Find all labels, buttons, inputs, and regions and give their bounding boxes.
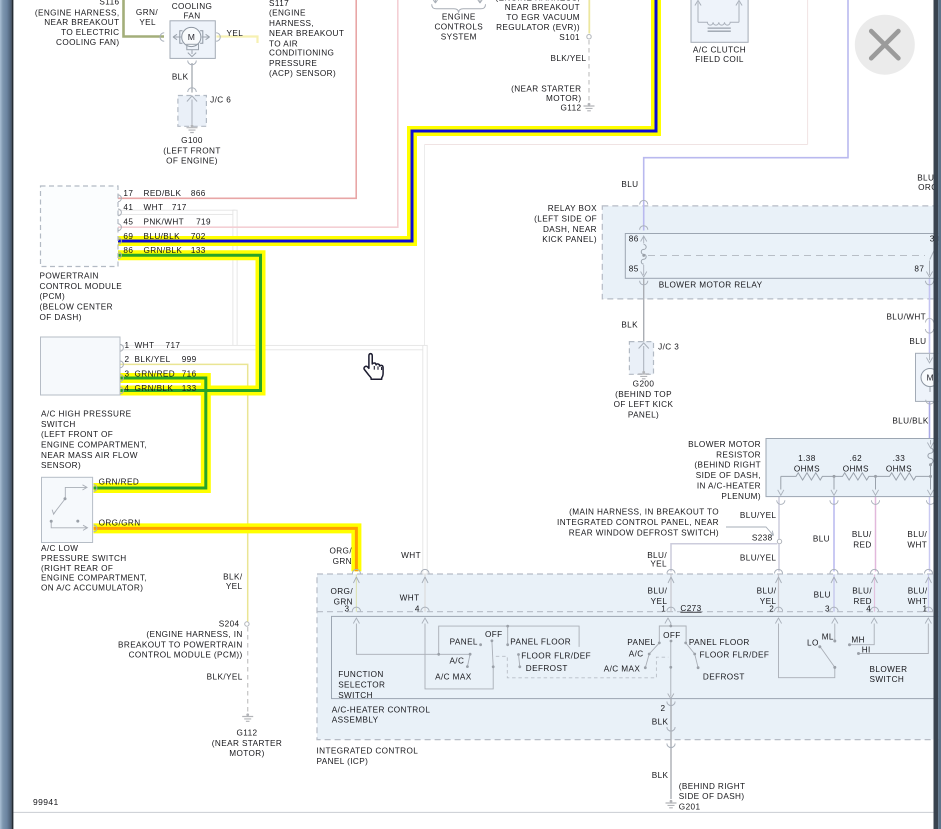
- svg-text:BLU: BLU: [621, 180, 638, 189]
- relay pin labels: [629, 234, 940, 273]
- wire RED/BLK 866 from PCM pin 17: [118, 0, 356, 198]
- relay pin 85 arrow: [641, 265, 647, 277]
- svg-text:KICK PANEL): KICK PANEL): [542, 235, 597, 244]
- svg-text:S238: S238: [752, 534, 773, 543]
- svg-text:(RIGHT REAR OF: (RIGHT REAR OF: [41, 564, 113, 573]
- label BLOWER MOTOR RELAY: [659, 280, 763, 289]
- svg-text:TO AIR: TO AIR: [269, 39, 298, 48]
- svg-text:ORG/GRN: ORG/GRN: [99, 519, 141, 528]
- svg-text:A/C-HEATER CONTROL: A/C-HEATER CONTROL: [332, 705, 431, 714]
- svg-text:MH: MH: [851, 635, 865, 644]
- svg-text:ASSEMBLY: ASSEMBLY: [332, 716, 379, 725]
- svg-text:2: 2: [769, 604, 774, 613]
- svg-text:BLK/YEL: BLK/YEL: [207, 673, 243, 682]
- svg-text:87: 87: [914, 265, 924, 274]
- svg-text:G112: G112: [236, 729, 257, 738]
- label BLK/YEL (S204): [207, 673, 243, 682]
- svg-text:BLU: BLU: [814, 590, 831, 599]
- wire BLU/BLK 702 PCM pin 69 to top (highlighted): [118, 0, 656, 241]
- ICP BLK pin 2 exit bumps: [667, 702, 675, 748]
- svg-text:COOLING: COOLING: [172, 2, 213, 11]
- wire BLU/YEL resistor to splice S238: [778, 497, 780, 540]
- page number 99941: [33, 797, 59, 807]
- svg-text:716: 716: [182, 370, 197, 379]
- wire BLK/YEL 999 from pressure switch pin 2 to S204: [120, 364, 248, 621]
- label A/C CLUTCH FIELD COIL: [693, 45, 746, 64]
- svg-text:86: 86: [629, 235, 639, 244]
- ICP boundary crossing bumps: [352, 569, 932, 573]
- wire BLK relay pin 85 to J/C 3: [643, 278, 645, 342]
- svg-text:BLU/BLK: BLU/BLK: [144, 232, 181, 241]
- cooling fan box: [170, 21, 215, 59]
- svg-text:BLOWER MOTOR RELAY: BLOWER MOTOR RELAY: [659, 280, 763, 289]
- svg-text:BLU/: BLU/: [908, 587, 928, 596]
- label BLU: [621, 180, 638, 189]
- svg-text:45: 45: [123, 218, 133, 227]
- wire WHT 717 row to ICP: [120, 345, 425, 349]
- svg-text:BLU/YEL: BLU/YEL: [740, 511, 777, 520]
- svg-text:OFF: OFF: [485, 630, 503, 639]
- svg-text:2: 2: [125, 355, 130, 364]
- svg-text:BLOWER: BLOWER: [870, 665, 908, 674]
- svg-text:S117: S117: [269, 0, 289, 8]
- svg-text:GRN/BLK: GRN/BLK: [135, 384, 174, 393]
- svg-text:A/C HIGH PRESSURE: A/C HIGH PRESSURE: [41, 410, 132, 419]
- blower switch labels: [807, 632, 907, 684]
- svg-text:ORG/: ORG/: [329, 547, 352, 556]
- svg-text:(ACP) SENSOR): (ACP) SENSOR): [269, 69, 336, 78]
- svg-text:ON A/C ACCUMULATOR): ON A/C ACCUMULATOR): [41, 583, 143, 592]
- svg-text:SWITCH: SWITCH: [41, 420, 76, 429]
- label BLU/ORG (clipped at right): [917, 174, 938, 193]
- wire BLU/YEL S238 branch to ICP pin 1: [671, 544, 777, 572]
- svg-text:DEFROST: DEFROST: [703, 672, 745, 681]
- deck 1 contact dots: [437, 625, 521, 669]
- svg-text:4: 4: [125, 384, 130, 393]
- ground G112 near starter motor (top): [584, 103, 595, 111]
- svg-text:BLU/: BLU/: [757, 587, 777, 596]
- wire ORG/GRN low pressure switch to ICP (highlighted): [94, 528, 357, 571]
- relay pin 30 contact: [930, 234, 939, 260]
- svg-text:BLU: BLU: [909, 337, 926, 346]
- label G201: [679, 782, 746, 811]
- svg-text:PANEL): PANEL): [628, 410, 659, 419]
- svg-text:(LEFT FRONT OF: (LEFT FRONT OF: [41, 430, 113, 439]
- svg-text:BREAKOUT TO POWERTRAIN: BREAKOUT TO POWERTRAIN: [118, 640, 243, 649]
- svg-text:S204: S204: [219, 620, 240, 629]
- svg-text:999: 999: [182, 355, 197, 364]
- svg-text:J/C 3: J/C 3: [658, 342, 679, 351]
- label ENGINE CONTROLS SYSTEM: [434, 13, 483, 42]
- svg-text:.33: .33: [893, 454, 906, 463]
- svg-text:YEL: YEL: [650, 560, 667, 569]
- svg-text:A/C: A/C: [449, 656, 464, 665]
- wire BLK cooling fan to J/C 6: [191, 63, 193, 93]
- svg-text:ML: ML: [822, 632, 834, 641]
- svg-text:69: 69: [123, 232, 133, 241]
- blower motor relay inner box: [625, 234, 941, 279]
- wire BLU inside ICP: [831, 575, 837, 612]
- svg-text:YEL: YEL: [226, 582, 243, 591]
- svg-text:WHT: WHT: [401, 551, 421, 560]
- high pressure switch pin row labels: [125, 341, 197, 393]
- svg-text:FLOOR FLR/DEF: FLOOR FLR/DEF: [521, 652, 591, 661]
- svg-text:PNK/WHT: PNK/WHT: [144, 218, 185, 227]
- svg-text:133: 133: [191, 246, 206, 255]
- svg-text:DEFROST: DEFROST: [526, 664, 568, 673]
- label FUNCTION SELECTOR SWITCH: [338, 670, 385, 700]
- ICP integrated control panel outer dashed box: [317, 574, 941, 740]
- blower switch contact dots: [818, 640, 860, 669]
- svg-text:1: 1: [661, 604, 666, 613]
- svg-text:GRN/RED: GRN/RED: [135, 370, 176, 379]
- svg-text:(BEHIND TOP: (BEHIND TOP: [615, 390, 672, 399]
- svg-text:SWITCH: SWITCH: [338, 691, 373, 700]
- label BLK (relay): [621, 321, 638, 330]
- svg-text:A/C LOW: A/C LOW: [41, 544, 78, 553]
- svg-text:3: 3: [345, 604, 350, 613]
- svg-text:BLK/YEL: BLK/YEL: [135, 355, 171, 364]
- relay pin 86 arrow: [641, 236, 647, 244]
- A/C high pressure switch connector box: [41, 337, 121, 395]
- resistor elements 1.38 / .62 / .33 ohms: [781, 465, 931, 490]
- wire PNK/WHT 719 from PCM pin 45: [118, 0, 398, 227]
- connector C273 pin labels: [330, 587, 927, 614]
- label G100: [163, 136, 220, 166]
- svg-text:GRN/: GRN/: [136, 8, 158, 17]
- svg-text:WHT: WHT: [135, 341, 155, 350]
- svg-text:HARNESS,: HARNESS,: [269, 19, 314, 28]
- label COOLING FAN: [172, 2, 213, 21]
- connector C273 dashed line: [317, 611, 941, 613]
- A/C-heater control assembly switch box: [332, 616, 941, 698]
- label J/C 3: [658, 342, 679, 351]
- svg-text:SYSTEM: SYSTEM: [441, 32, 477, 41]
- svg-text:86: 86: [123, 246, 133, 255]
- relay coil: [641, 245, 646, 265]
- label YEL: [227, 29, 244, 38]
- S238 leader arrow: [726, 527, 774, 536]
- left page edge: [0, 0, 13, 829]
- splice S101: [587, 35, 591, 39]
- blower motor resistor box: [766, 439, 941, 497]
- svg-text:1: 1: [923, 604, 928, 613]
- svg-text:BLOWER MOTOR: BLOWER MOTOR: [688, 440, 761, 449]
- wire labels above ICP: [329, 511, 927, 569]
- label GRN/RED: [99, 478, 140, 487]
- svg-text:NEAR MASS AIR FLOW: NEAR MASS AIR FLOW: [41, 451, 138, 460]
- label POWERTRAIN CONTROL MODULE: [40, 272, 123, 322]
- splice S238: [777, 539, 781, 543]
- svg-text:PANEL (ICP): PANEL (ICP): [317, 757, 369, 766]
- high pressure switch pin arcs: [120, 344, 123, 394]
- resistor input arrow and element: [927, 440, 933, 464]
- svg-text:BLU: BLU: [813, 535, 830, 544]
- svg-text:OFF: OFF: [663, 631, 681, 640]
- resistor value labels: [794, 454, 912, 473]
- svg-text:WHT: WHT: [400, 593, 420, 602]
- PCM pin row labels: [123, 189, 211, 255]
- label BLU (motor): [909, 337, 926, 346]
- deck 1 mechanical dashed link: [496, 656, 669, 678]
- label S204 breakout text: [118, 620, 243, 660]
- svg-text:RELAY BOX: RELAY BOX: [548, 204, 597, 213]
- label BLK/YEL (S101): [550, 54, 586, 63]
- svg-text:(ENGINE: (ENGINE: [269, 9, 306, 18]
- A/C clutch field coil box: [691, 0, 748, 42]
- wire BLU/RED inside ICP: [872, 575, 878, 612]
- wire BLU from top to blower motor relay pin 86: [644, 0, 848, 231]
- svg-text:(NEAR STARTER: (NEAR STARTER: [511, 85, 581, 94]
- svg-text:ENGINE COMPARTMENT,: ENGINE COMPARTMENT,: [41, 574, 147, 583]
- wire BLU resistor to ICP: [833, 497, 835, 572]
- PCM pin arcs: [118, 195, 121, 259]
- svg-text:GRN: GRN: [333, 557, 352, 566]
- function selector switch deck 2 internal wiring: [645, 624, 698, 699]
- label J/C 6: [210, 95, 231, 104]
- svg-text:OF ENGINE): OF ENGINE): [166, 157, 218, 166]
- svg-text:OF DASH): OF DASH): [40, 313, 82, 322]
- svg-text:3: 3: [825, 604, 830, 613]
- svg-text:(ENGINE HARNESS,: (ENGINE HARNESS,: [35, 8, 120, 17]
- svg-text:BLK: BLK: [652, 771, 669, 780]
- svg-text:ENGINE COMPARTMENT,: ENGINE COMPARTMENT,: [41, 441, 147, 450]
- svg-text:SENSOR): SENSOR): [41, 461, 81, 470]
- svg-text:A/C MAX: A/C MAX: [435, 672, 472, 681]
- deck 1 position labels: [435, 630, 591, 682]
- wire GRN/RED 716 pressure switch pin 3 to low pressure switch (highlighted): [94, 378, 206, 488]
- svg-text:LO: LO: [807, 638, 819, 647]
- right page edge: [934, 0, 941, 829]
- label EVR breakout text: [495, 0, 580, 42]
- wire WHT 717 PCM pin41 segment: [118, 210, 235, 214]
- svg-text:4: 4: [415, 604, 420, 613]
- svg-text:S116: S116: [99, 0, 119, 7]
- svg-text:PANEL: PANEL: [450, 638, 478, 647]
- low pressure switch internal contacts: [51, 485, 87, 531]
- label GRN/YEL: [136, 8, 158, 27]
- label BLU/BLK: [892, 417, 929, 426]
- svg-text:BLK: BLK: [621, 321, 638, 330]
- svg-text:G201: G201: [679, 802, 701, 811]
- svg-text:TO ELECTRIC: TO ELECTRIC: [61, 28, 119, 37]
- svg-text:(LEFT SIDE OF: (LEFT SIDE OF: [534, 215, 597, 224]
- svg-text:POWERTRAIN: POWERTRAIN: [40, 272, 99, 281]
- svg-text:702: 702: [191, 232, 206, 241]
- svg-text:ENGINE: ENGINE: [442, 13, 476, 22]
- svg-text:PRESSURE: PRESSURE: [269, 59, 317, 68]
- wire BLU/WHT resistor to ICP: [929, 497, 931, 572]
- resistor output arrows: [777, 490, 935, 505]
- connector C273 pin bumps: [352, 607, 932, 611]
- svg-text:BLU/BLK: BLU/BLK: [892, 417, 929, 426]
- svg-text:717: 717: [172, 203, 187, 212]
- svg-text:BLK/YEL: BLK/YEL: [550, 54, 586, 63]
- svg-text:G112: G112: [560, 104, 581, 113]
- svg-text:FLOOR FLR/DEF: FLOOR FLR/DEF: [700, 650, 770, 659]
- svg-text:M: M: [927, 372, 935, 382]
- svg-text:BLU/: BLU/: [647, 587, 667, 596]
- svg-text:SIDE OF DASH): SIDE OF DASH): [679, 792, 745, 801]
- ICP pin 2 BLK labels: [652, 704, 669, 780]
- wire BLK/YEL dashed S204 to G112: [247, 627, 249, 713]
- svg-text:FUNCTION: FUNCTION: [338, 670, 384, 679]
- faint section frame lines: [425, 0, 808, 574]
- label A/C-HEATER CONTROL ASSEMBLY: [332, 705, 431, 724]
- function selector switch deck 1 internal wiring: [356, 624, 579, 689]
- wire BLU/WHT relay pin 87 to blower motor: [929, 278, 931, 353]
- label G200: [614, 380, 674, 420]
- ground G201: [666, 800, 677, 808]
- low pressure switch pin arcs: [94, 485, 97, 532]
- svg-text:NEAR BREAKOUT: NEAR BREAKOUT: [269, 29, 344, 38]
- label BLU/WHT: [886, 313, 926, 322]
- wire WHT 717 vertical junction segment: [233, 210, 237, 348]
- svg-text:INTEGRATED CONTROL: INTEGRATED CONTROL: [317, 747, 419, 756]
- blower motor box: [916, 353, 941, 404]
- svg-text:(MAIN HARNESS, IN BREAKOUT TO: (MAIN HARNESS, IN BREAKOUT TO: [569, 508, 719, 517]
- svg-text:RED: RED: [853, 541, 872, 550]
- svg-text:S101: S101: [559, 33, 580, 42]
- wire BLU/WHT inside ICP: [926, 575, 932, 612]
- svg-text:CONTROL MODULE: CONTROL MODULE: [40, 282, 123, 291]
- svg-text:SIDE OF DASH,: SIDE OF DASH,: [696, 471, 761, 480]
- svg-text:1: 1: [125, 341, 130, 350]
- svg-text:REAR WINDOW DEFROST SWITCH): REAR WINDOW DEFROST SWITCH): [569, 528, 719, 537]
- svg-text:(ENGINE HARNESS, IN: (ENGINE HARNESS, IN: [146, 630, 242, 639]
- svg-text:CONTROL MODULE (PCM)): CONTROL MODULE (PCM)): [129, 651, 243, 660]
- svg-text:FIELD COIL: FIELD COIL: [695, 55, 744, 64]
- svg-text:BLU/: BLU/: [852, 587, 872, 596]
- label G112 (bottom): [212, 729, 282, 759]
- splice S204: [245, 622, 249, 626]
- ground G112 near starter motor (bottom): [242, 713, 253, 721]
- svg-text:3: 3: [125, 370, 130, 379]
- svg-text:WHT: WHT: [907, 541, 927, 550]
- svg-text:NEAR BREAKOUT: NEAR BREAKOUT: [505, 3, 580, 12]
- svg-text:717: 717: [166, 341, 181, 350]
- svg-text:MOTOR): MOTOR): [546, 94, 581, 103]
- wire BLU/YEL 1 inside ICP: [668, 575, 674, 612]
- svg-text:BLU/: BLU/: [907, 530, 927, 539]
- label S116 splice text: [35, 0, 120, 47]
- svg-text:(LEFT FRONT: (LEFT FRONT: [163, 146, 220, 155]
- svg-text:TO EGR VACUUM: TO EGR VACUUM: [506, 13, 580, 22]
- relay coil-contact dashed link: [642, 254, 925, 257]
- svg-text:SELECTOR: SELECTOR: [338, 681, 385, 690]
- svg-text:BLU/WHT: BLU/WHT: [886, 313, 926, 322]
- svg-text:GRN/RED: GRN/RED: [99, 478, 140, 487]
- ground G200: [638, 371, 649, 379]
- svg-text:OF LEFT KICK: OF LEFT KICK: [614, 400, 674, 409]
- svg-text:(BELOW CENTER: (BELOW CENTER: [40, 303, 113, 312]
- label BLOWER MOTOR RESISTOR location: [688, 440, 761, 501]
- svg-text:SWITCH: SWITCH: [870, 675, 905, 684]
- svg-text:YEL: YEL: [227, 29, 244, 38]
- wire YEL cooling fan to S117: [217, 37, 258, 44]
- wire WHT inside ICP to pin 4: [422, 575, 428, 612]
- svg-text:17: 17: [123, 189, 133, 198]
- label G112 near starter motor (top): [511, 85, 581, 113]
- svg-text:A/C MAX: A/C MAX: [604, 664, 641, 673]
- wire BLU/BLK blower motor to resistor: [929, 401, 931, 438]
- wire GRN/BLK 133 PCM pin 86 to pressure switch pin 4 (highlighted): [118, 255, 261, 390]
- svg-text:G100: G100: [181, 136, 203, 145]
- BLU/WHT inline connector arcs: [925, 318, 933, 333]
- svg-text:(BEHIND RIGHT: (BEHIND RIGHT: [694, 461, 761, 470]
- svg-text:OHMS: OHMS: [843, 464, 869, 473]
- svg-text:CONTROLS: CONTROLS: [434, 23, 483, 32]
- svg-text:M: M: [188, 32, 196, 42]
- highlighted circuit yellow halos: [94, 0, 657, 571]
- svg-text:PLENUM): PLENUM): [721, 492, 761, 501]
- deck 2 position labels: [604, 631, 770, 681]
- junction box J/C 6: [178, 88, 207, 127]
- svg-text:.62: .62: [850, 454, 863, 463]
- relay pin 87 contact arrow: [926, 261, 932, 278]
- label S117 splice text: [269, 0, 344, 78]
- switch box pin entry arrows: [353, 618, 931, 624]
- blower switch internal wiring: [779, 624, 929, 678]
- svg-text:99941: 99941: [33, 797, 59, 807]
- svg-text:RED/BLK: RED/BLK: [144, 189, 182, 198]
- svg-text:OHMS: OHMS: [886, 464, 912, 473]
- wire ORG/GRN inside ICP to pin 3: [353, 575, 359, 612]
- wire WHT 717 vertical to ICP pin 4: [423, 345, 427, 574]
- svg-text:C273: C273: [680, 604, 701, 613]
- svg-text:PANEL FLOOR: PANEL FLOOR: [510, 638, 571, 647]
- svg-text:J/C 6: J/C 6: [210, 95, 231, 104]
- svg-text:GRN: GRN: [334, 598, 353, 607]
- close button: [855, 15, 915, 75]
- label S238 breakout text: [557, 508, 773, 543]
- svg-text:2: 2: [661, 704, 666, 713]
- svg-text:A/C: A/C: [629, 650, 644, 659]
- label BLK (fan): [172, 72, 189, 81]
- svg-text:(BEHIND RIGHT: (BEHIND RIGHT: [679, 782, 746, 791]
- page bottom border: [13, 811, 933, 813]
- wire BLK ICP pin 2 to G201: [670, 699, 672, 799]
- mouse cursor: [364, 354, 383, 380]
- svg-text:NEAR BREAKOUT: NEAR BREAKOUT: [44, 18, 119, 27]
- svg-text:719: 719: [196, 218, 211, 227]
- svg-text:GRN/BLK: GRN/BLK: [144, 246, 183, 255]
- wire BLU/RED resistor to ICP: [875, 497, 877, 572]
- svg-text:1.38: 1.38: [798, 454, 816, 463]
- svg-text:INTEGRATED CONTROL PANEL, NEAR: INTEGRATED CONTROL PANEL, NEAR: [557, 518, 719, 527]
- svg-text:866: 866: [191, 189, 206, 198]
- svg-text:YEL: YEL: [139, 18, 156, 27]
- svg-text:IN A/C-HEATER: IN A/C-HEATER: [697, 482, 761, 491]
- svg-text:(PCM): (PCM): [40, 292, 66, 301]
- svg-text:133: 133: [182, 384, 197, 393]
- deck 2 contact dots: [644, 625, 700, 670]
- svg-text:REGULATOR (EVR)): REGULATOR (EVR)): [496, 23, 580, 32]
- cooling fan motor M symbol: [160, 27, 220, 64]
- svg-text:BLU/: BLU/: [852, 530, 872, 539]
- A/C low pressure switch box: [42, 477, 93, 542]
- svg-text:PANEL: PANEL: [627, 638, 655, 647]
- svg-text:BLK: BLK: [652, 717, 669, 726]
- svg-text:ORG/: ORG/: [330, 587, 353, 596]
- wire BLU/YEL S238 branch to ICP pin 2: [778, 544, 780, 572]
- ground G100: [187, 125, 198, 133]
- label ORG/GRN: [99, 519, 141, 528]
- label A/C LOW PRESSURE SWITCH: [41, 544, 147, 592]
- relay box dashed enclosure: [602, 206, 941, 299]
- svg-text:BLU/YEL: BLU/YEL: [740, 554, 777, 563]
- svg-text:HI: HI: [862, 645, 871, 654]
